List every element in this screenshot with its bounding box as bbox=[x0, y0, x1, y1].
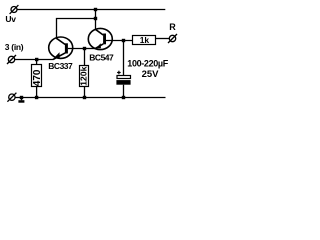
svg-text:100-220µF: 100-220µF bbox=[127, 58, 168, 68]
wire input to Q1 emitter bbox=[15, 59, 53, 61]
wire node to resistor 120k bbox=[84, 49, 86, 66]
transistor Q2 BC547 bbox=[88, 28, 132, 49]
resistor 1k bbox=[133, 35, 156, 45]
svg-text:BC547: BC547 bbox=[89, 52, 114, 62]
resistor 470 bbox=[32, 65, 44, 87]
junction supply rail / Q2 collector bbox=[94, 8, 97, 11]
wire 470 top stem bbox=[36, 60, 38, 65]
wire capacitor top stem bbox=[123, 41, 125, 76]
junction capacitor / ground rail bbox=[122, 96, 125, 99]
terminal R bbox=[168, 34, 177, 43]
terminal ground left bbox=[7, 93, 16, 102]
svg-text:25V: 25V bbox=[142, 69, 160, 80]
wire Q1 collector to supply bbox=[57, 19, 96, 39]
terminal 3 (in) bbox=[7, 55, 16, 64]
svg-text:Uv: Uv bbox=[5, 14, 16, 24]
wire Q2 collector lead bbox=[95, 10, 97, 30]
wire capacitor bottom stem bbox=[123, 85, 125, 98]
resistor 120k bbox=[79, 66, 89, 87]
svg-text:BC337: BC337 bbox=[48, 61, 73, 71]
wire Q2 emitter to node bbox=[85, 48, 96, 50]
wire 470 bottom stem bbox=[36, 87, 38, 98]
junction node base/emitter bbox=[83, 47, 86, 50]
capacitor C1 electrolytic bbox=[116, 71, 130, 85]
junction collector tie bbox=[94, 17, 97, 20]
svg-text:470: 470 bbox=[32, 69, 43, 86]
terminal Uv bbox=[10, 5, 19, 14]
wire 120k to ground rail bbox=[84, 87, 86, 98]
svg-text:3 (in): 3 (in) bbox=[5, 42, 24, 52]
svg-text:R: R bbox=[169, 22, 176, 32]
junction 120k / ground rail bbox=[83, 96, 86, 99]
junction input / 470 bbox=[35, 58, 38, 61]
svg-text:1k: 1k bbox=[140, 35, 150, 45]
wire 1k to terminal R bbox=[155, 38, 169, 40]
ground symbol bbox=[18, 98, 24, 103]
wire supply rail bbox=[17, 9, 165, 11]
wire ground rail bbox=[15, 97, 165, 99]
svg-text:120k: 120k bbox=[79, 66, 89, 85]
transistor Q1 BC337 bbox=[49, 37, 85, 60]
junction ground symbol bbox=[20, 96, 23, 99]
junction 470 / ground rail bbox=[35, 96, 38, 99]
junction base wire / capacitor bbox=[122, 39, 125, 42]
